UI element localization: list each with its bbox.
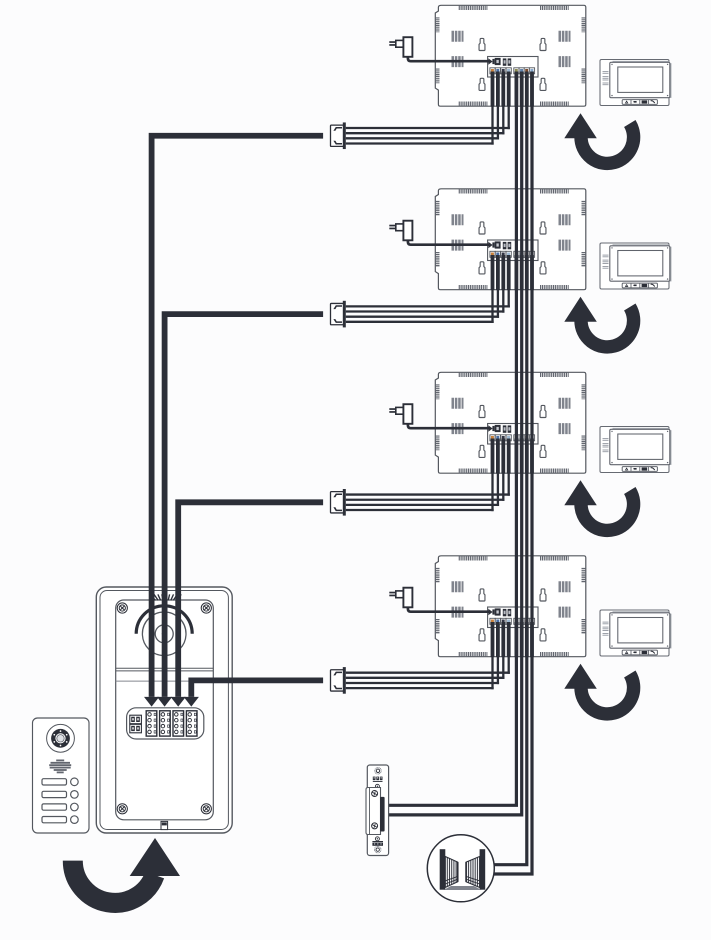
plug latch bottom	[333, 507, 342, 511]
call button dot 3	[71, 803, 79, 811]
door station back inner shell	[100, 591, 228, 830]
monitor 1 assembly	[389, 5, 670, 163]
wire stub right terminal 3 monitor 3	[525, 439, 529, 474]
terminal 2	[495, 68, 500, 74]
cable bus monitor 3 to door station	[178, 502, 323, 697]
terminal 1	[490, 251, 495, 257]
connector block 2	[160, 711, 171, 736]
terminal 6	[519, 68, 524, 74]
terminal 5	[514, 251, 519, 257]
gate right leaf	[466, 857, 480, 888]
terminal 3	[501, 618, 506, 624]
terminal 2	[495, 618, 500, 624]
call button 1	[42, 779, 67, 785]
speaker arc	[136, 606, 192, 634]
strike top screw	[375, 768, 381, 774]
terminal 6	[519, 618, 524, 624]
wire stub right terminal 2 monitor 2	[520, 255, 524, 290]
electric strike plate	[367, 765, 388, 856]
wire terminal 2 monitor 2	[496, 255, 500, 290]
cable arrowhead 2	[157, 697, 172, 707]
wire terminal 1 monitor 4	[491, 622, 495, 657]
terminal 6	[519, 251, 524, 257]
wire stub right terminal 2 monitor 3	[520, 439, 524, 474]
gate left leaf	[445, 857, 457, 888]
power terminal block	[130, 715, 142, 724]
latch screw top	[372, 791, 378, 797]
connector block 4	[186, 711, 197, 736]
plug latch top	[333, 127, 342, 131]
call button dot 4	[71, 816, 79, 824]
wire stub right terminal 4 monitor 2	[530, 255, 534, 290]
strike latch body	[366, 788, 381, 835]
wire stub right terminal 4 monitor 4	[530, 622, 534, 657]
connector block 3	[173, 711, 184, 736]
call button 4	[42, 817, 67, 823]
connector plug monitor 1	[331, 125, 344, 146]
wire stub right terminal 2 monitor 1	[520, 72, 524, 107]
wire terminal 2 monitor 4	[496, 622, 500, 657]
gate circle	[427, 835, 494, 902]
wire stub right terminal 1 monitor 2	[515, 255, 519, 290]
terminal 6	[519, 435, 524, 441]
wire stub right terminal 3 monitor 4	[525, 622, 529, 657]
call button 3	[42, 804, 67, 810]
call button dot 1	[71, 778, 79, 786]
terminal 2	[495, 251, 500, 257]
terminal 3	[501, 435, 506, 441]
terminal 5	[514, 435, 519, 441]
terminal 2	[495, 435, 500, 441]
speaker grille	[49, 760, 71, 772]
terminal 1	[490, 435, 495, 441]
call button dot 2	[71, 791, 79, 799]
corner screw	[201, 603, 211, 613]
wire terminal 1 monitor 1	[491, 72, 495, 107]
cable arrowhead 1	[144, 697, 159, 707]
wire stub right terminal 3 monitor 2	[525, 255, 529, 290]
terminal 1	[490, 618, 495, 624]
terminal 7	[524, 68, 529, 74]
wire stub right terminal 3 monitor 1	[525, 72, 529, 107]
connector plug monitor 4	[331, 670, 344, 691]
corner screw	[201, 804, 211, 814]
wire terminal 3 monitor 1	[501, 72, 505, 107]
wire terminal 3 monitor 4	[501, 622, 505, 657]
cable bus monitor 1 to door station	[152, 136, 324, 697]
riser bundle wire 1 (to strike)	[389, 72, 516, 806]
riser bundle wire 3 (to gate)	[494, 72, 527, 865]
bottom latch	[161, 821, 168, 829]
speaker outer circle	[142, 612, 186, 656]
terminal 3	[501, 68, 506, 74]
monitor 3 assembly	[389, 372, 670, 530]
wire stub right terminal 1 monitor 1	[515, 72, 519, 107]
terminal 4	[506, 251, 511, 257]
flip arrow door station head	[130, 838, 180, 876]
terminal 4	[506, 618, 511, 624]
connector block 1	[146, 711, 157, 736]
connector plug monitor 2	[331, 303, 344, 324]
wire terminal 2 monitor 1	[496, 72, 500, 107]
riser bundle wire 4 (to gate)	[493, 72, 532, 875]
terminal 8	[529, 251, 534, 257]
cable arrowhead 3	[171, 697, 186, 707]
plug latch bottom	[333, 319, 342, 323]
wire terminal 4 monitor 3	[507, 439, 511, 474]
top vent hatch	[150, 594, 181, 600]
latch screw bottom	[372, 823, 378, 829]
label FAB	[373, 777, 383, 782]
wire stub right terminal 4 monitor 1	[530, 72, 534, 107]
corner screw	[117, 804, 127, 814]
label BYZ	[372, 841, 383, 846]
cable bus monitor 4 to door station	[191, 680, 323, 697]
plug latch top	[333, 305, 342, 309]
wire terminal 4 monitor 4	[507, 622, 511, 657]
wire terminal 1 monitor 2	[491, 255, 495, 290]
monitor 4 assembly	[389, 556, 670, 714]
gate threshold	[444, 886, 482, 890]
strike small hole bottom	[375, 837, 379, 841]
terminal 1	[490, 68, 495, 74]
plug latch top	[333, 494, 342, 498]
terminal 5	[514, 618, 519, 624]
strike small hole top	[375, 784, 379, 788]
wire stub right terminal 1 monitor 3	[515, 439, 519, 474]
terminal 8	[529, 435, 534, 441]
camera lens	[55, 733, 65, 743]
terminal 5	[514, 68, 519, 74]
wire terminal 4 monitor 2	[507, 255, 511, 290]
connector plug monitor 3	[331, 492, 344, 513]
door station front body	[33, 718, 90, 833]
divider line 3	[116, 680, 214, 682]
strike bottom screw	[375, 846, 381, 852]
riser bundle wire 2 (to strike)	[389, 72, 522, 815]
strike latch bar	[380, 797, 385, 832]
wire terminal 4 monitor 1	[507, 72, 511, 107]
plug latch bottom	[333, 685, 342, 689]
terminal 7	[524, 251, 529, 257]
gate right post	[480, 849, 486, 890]
wire terminal 3 monitor 2	[501, 255, 505, 290]
camera outer	[47, 724, 75, 752]
terminal 8	[529, 68, 534, 74]
terminal 4	[506, 68, 511, 74]
terminal 7	[524, 435, 529, 441]
camera ring	[51, 729, 70, 748]
mounting plate	[116, 600, 214, 820]
wire terminal 1 monitor 3	[491, 439, 495, 474]
wire stub right terminal 4 monitor 3	[530, 439, 534, 474]
terminal 4	[506, 435, 511, 441]
plug latch top	[333, 672, 342, 676]
terminal 3	[501, 251, 506, 257]
speaker center dot	[162, 631, 167, 636]
terminal container	[127, 708, 204, 739]
wire terminal 2 monitor 3	[496, 439, 500, 474]
terminal 8	[529, 618, 534, 624]
wire stub right terminal 2 monitor 4	[520, 622, 524, 657]
flip arrow door station arc	[73, 861, 155, 903]
speaker inner circle	[155, 625, 173, 643]
call button 2	[42, 791, 67, 797]
wire stub right terminal 1 monitor 4	[515, 622, 519, 657]
wire terminal 3 monitor 3	[501, 439, 505, 474]
divider lines	[116, 667, 214, 669]
monitor 2 assembly	[389, 189, 670, 347]
cable bus monitor 2 to door station	[165, 314, 324, 697]
cable arrowhead 4	[184, 697, 199, 707]
gate left post	[440, 849, 446, 890]
terminal 7	[524, 618, 529, 624]
corner screw	[117, 603, 127, 613]
door station back outer shell	[96, 587, 232, 833]
plug latch bottom	[333, 141, 342, 145]
